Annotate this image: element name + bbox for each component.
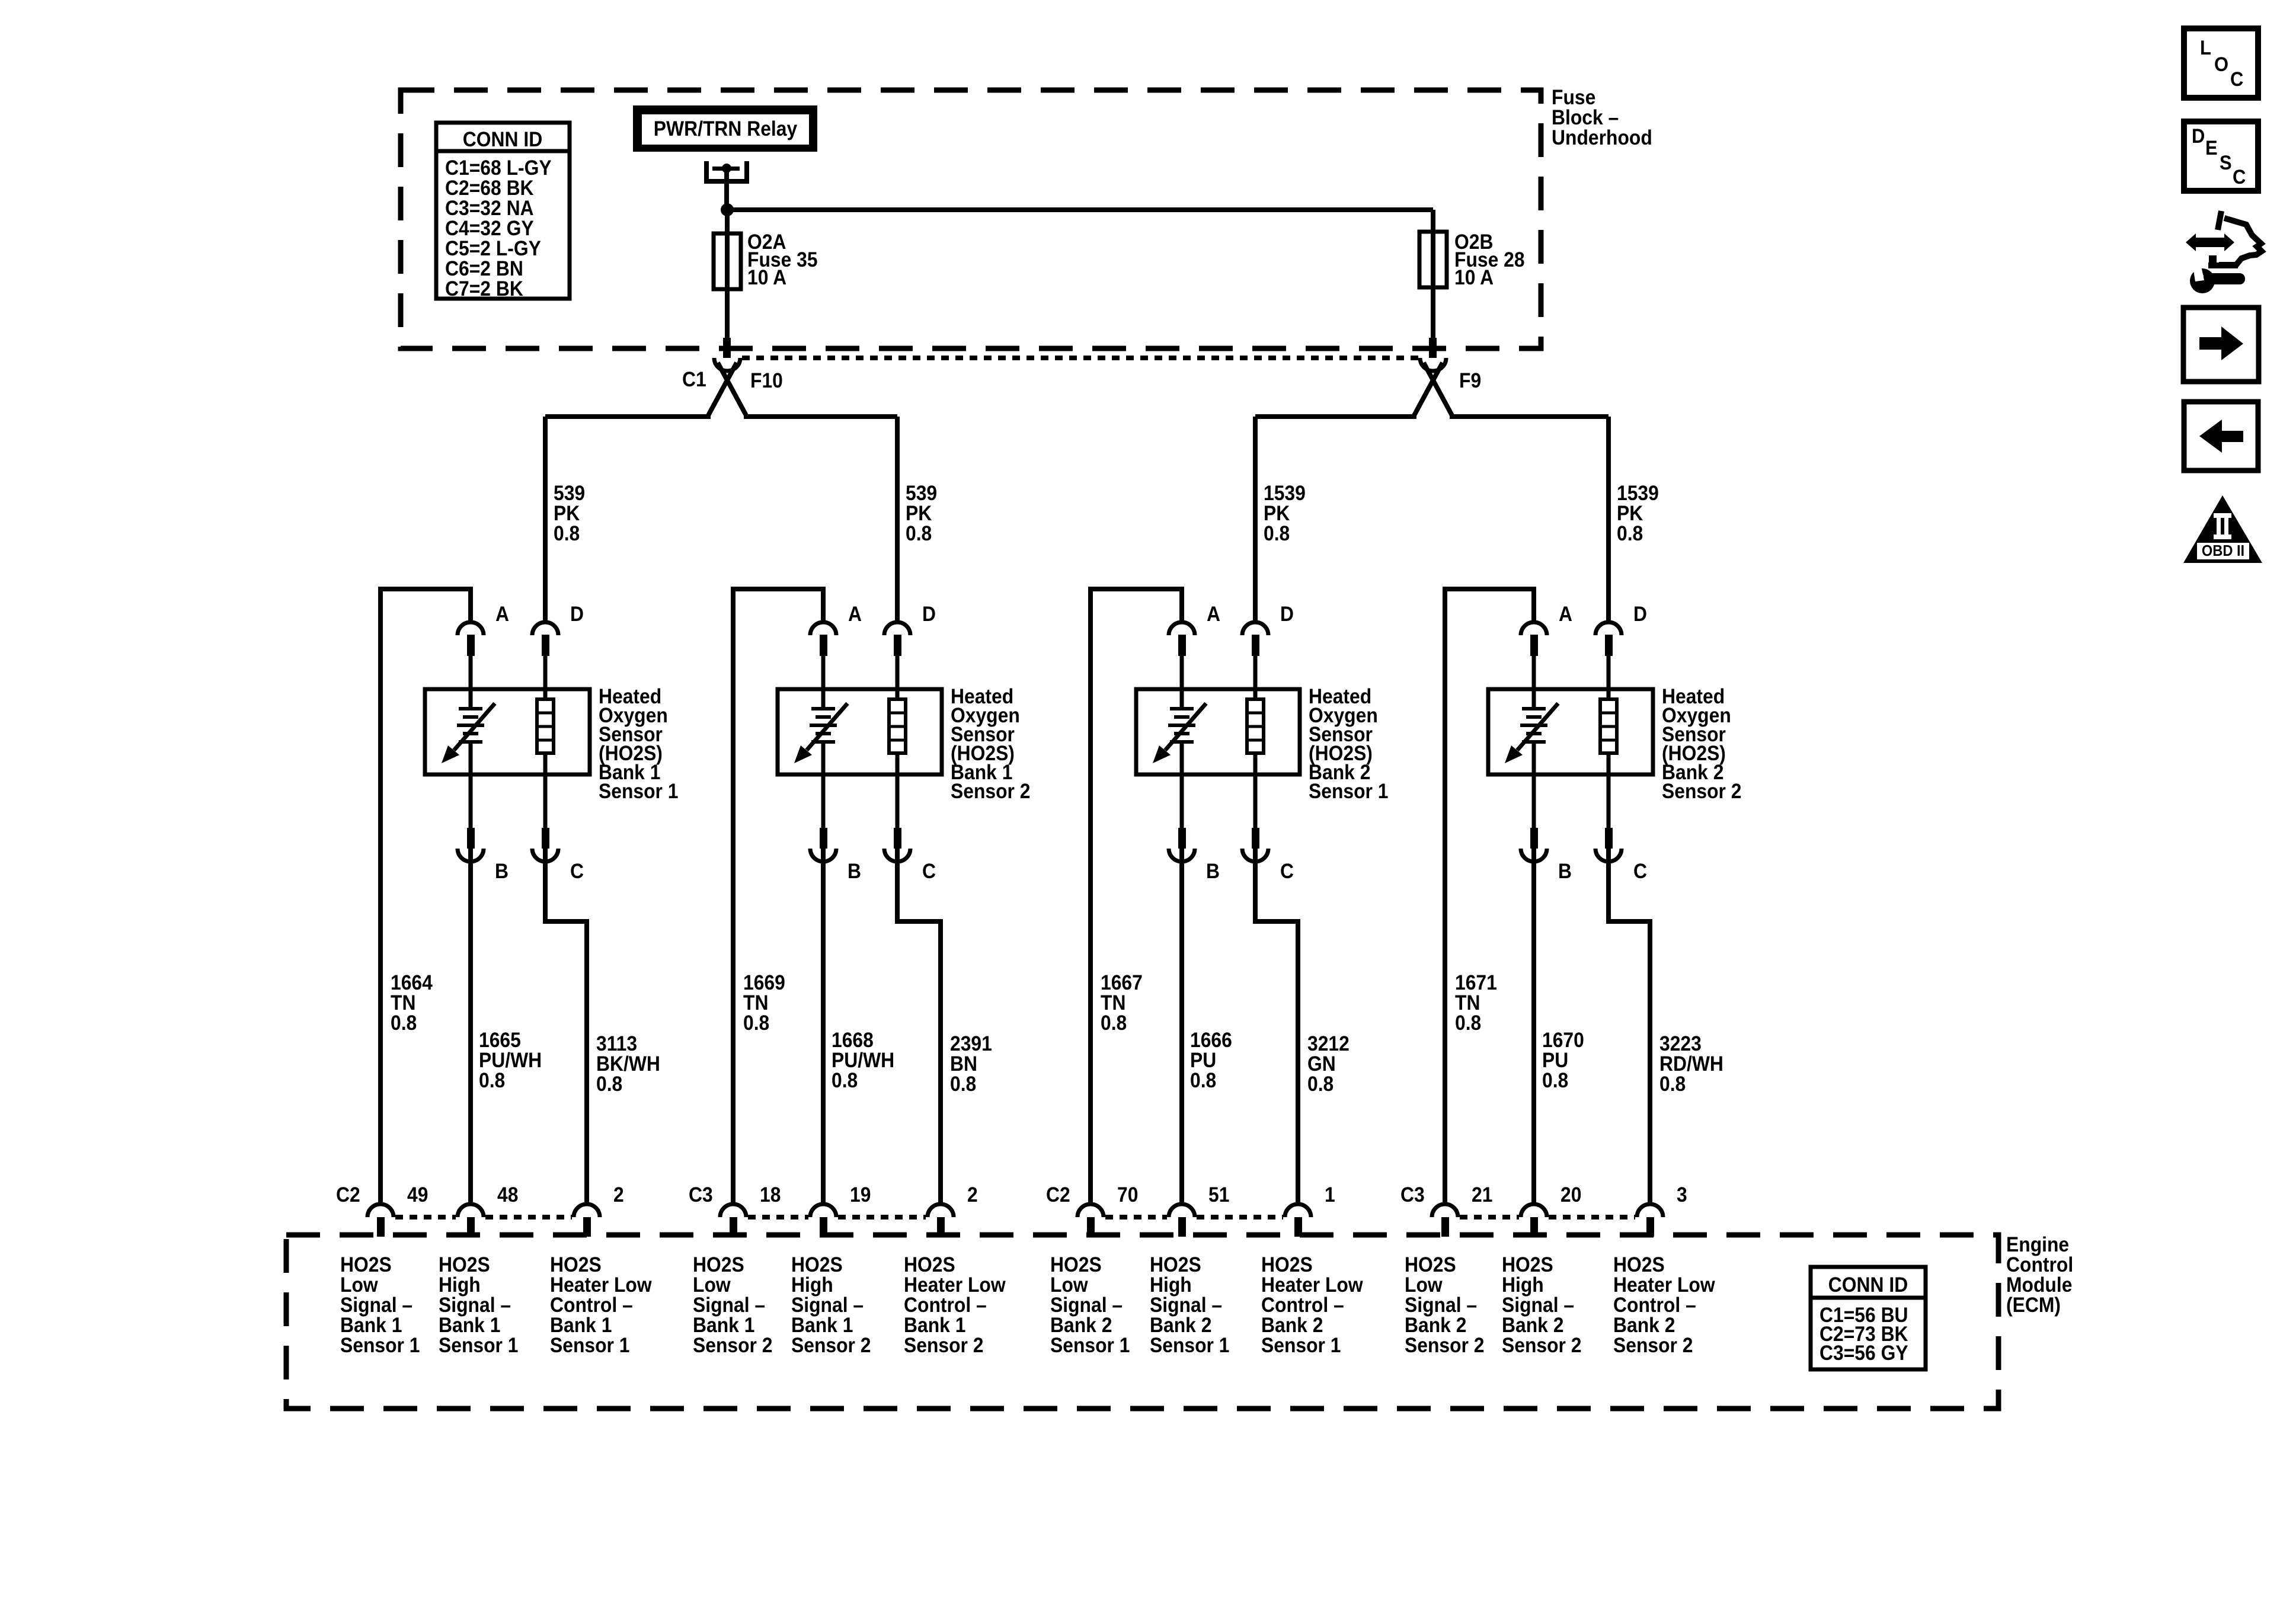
terminal A connector (Bank 1 Sensor 1) [458,622,484,689]
ECM pin connector at x=794 (Bank 1 Sensor 1) [458,1204,484,1237]
svg-text:C4=32 GY: C4=32 GY [445,217,534,241]
ECM pin connector at x=2588 (Bank 2 Sensor 2) [1521,1204,1547,1237]
wire label 1671 TN 0.8 [1455,972,1497,1035]
wire 3113 BK/WH 0.8 terminal C to ECM (Bank 1 Sensor 1) [543,849,589,1205]
label D (Bank 2 Sensor 1) [1280,603,1294,626]
svg-text:D: D [1633,603,1647,626]
Heated Oxygen Sensor box (Bank 2 Sensor 1) [1136,689,1300,774]
terminal D connector (Bank 2 Sensor 1) [1242,622,1268,689]
fuse O2A (Fuse 35 10 A) [714,233,741,289]
svg-text:PU: PU [1542,1049,1568,1073]
heater element symbol (Bank 2 Sensor 2) [1600,689,1617,774]
O2 sensing element symbol (Bank 1 Sensor 1) [442,689,495,774]
svg-text:HO2S: HO2S [1613,1254,1665,1277]
svg-text:HO2S: HO2S [1405,1254,1456,1277]
svg-text:PU/WH: PU/WH [832,1049,894,1073]
terminal B connector (Bank 1 Sensor 1) [458,774,484,862]
svg-text:Sensor 1: Sensor 1 [550,1334,630,1358]
svg-text:70: 70 [1117,1184,1138,1207]
ECM label HO2S Heater Low Control Bank 2 Sensor 1 [1261,1254,1364,1358]
fuse block label: Fuse Block - Underhood [1552,87,1652,150]
svg-text:C3: C3 [1400,1184,1425,1207]
icon back arrow box [2184,402,2258,470]
label F10 [750,370,783,393]
svg-text:3212: 3212 [1307,1033,1350,1056]
ECM label HO2S Low Signal Bank 1 Sensor 1 [340,1254,420,1358]
svg-text:0.8: 0.8 [1190,1070,1216,1093]
heater element symbol (Bank 1 Sensor 2) [889,689,906,774]
svg-text:B: B [848,860,861,884]
svg-text:18: 18 [760,1184,781,1207]
svg-text:Sensor 2: Sensor 2 [1662,780,1742,804]
label pin 21 [1472,1184,1492,1207]
svg-text:Sensor 1: Sensor 1 [439,1334,519,1358]
wire label 1669 TN 0.8 [743,972,785,1035]
svg-text:Control –: Control – [1613,1294,1696,1317]
svg-text:A: A [495,603,509,626]
svg-text:1539: 1539 [1264,482,1306,505]
svg-text:HO2S: HO2S [550,1254,602,1277]
CONN ID table (fuse block: C1=68 L-GY ... C7=2 BK) [436,123,570,300]
wire label 3113 BK/WH 0.8 [596,1033,660,1096]
svg-text:Sensor 2: Sensor 2 [904,1334,984,1358]
wire label 1539 PK 0.8 (Bank 2 Sensor 1 heater feed) [1264,482,1306,546]
svg-text:TN: TN [1455,992,1480,1015]
terminal A connector (Bank 2 Sensor 2) [1521,622,1547,689]
svg-text:1539: 1539 [1617,482,1659,505]
wire terminal A loop (Bank 1 Sensor 1) [378,589,473,1205]
svg-text:Bank 1: Bank 1 [340,1314,402,1337]
relay PWR/TRN Relay (label box) [633,105,817,152]
svg-text:Bank 2: Bank 2 [1613,1314,1675,1337]
wire label 1539 PK 0.8 (Bank 2 Sensor 2 heater feed) [1617,482,1659,546]
label pin 48 [497,1184,518,1207]
wire 3223 RD/WH 0.8 terminal C to ECM (Bank 2 Sensor 2) [1606,849,1652,1205]
svg-text:49: 49 [407,1184,428,1207]
svg-text:O: O [2214,53,2228,76]
fuse block - underhood dashed outline box [401,90,1541,348]
svg-text:C7=2 BK: C7=2 BK [445,278,523,301]
icon OBD II triangle [2183,495,2262,563]
wire terminal A loop (Bank 2 Sensor 2) [1443,589,1536,1205]
label A (Bank 1 Sensor 2) [848,603,862,626]
svg-text:F9: F9 [1459,370,1481,393]
svg-text:Sensor 1: Sensor 1 [1050,1334,1130,1358]
O2 sensing element symbol (Bank 2 Sensor 1) [1153,689,1206,774]
fuse O2B value label [1454,231,1525,290]
svg-text:C3: C3 [689,1184,713,1207]
svg-text:Control –: Control – [1261,1294,1344,1317]
svg-text:HO2S: HO2S [1150,1254,1201,1277]
wire F9 right run to HO2S B2S2 heater feed [1450,414,1609,419]
svg-text:BK/WH: BK/WH [596,1053,660,1076]
Heated Oxygen Sensor box (Bank 2 Sensor 2) [1488,689,1653,774]
svg-text:Sensor 1: Sensor 1 [1309,780,1389,804]
svg-text:1668: 1668 [832,1029,874,1052]
wire horizontal feed down to fuse O2B [1431,210,1435,232]
svg-text:Low: Low [693,1274,731,1297]
fuse O2B (Fuse 28 10 A) [1419,232,1447,287]
svg-text:Bank 1: Bank 1 [791,1314,853,1337]
label connector C2 [1046,1184,1070,1207]
svg-text:0.8: 0.8 [1542,1070,1568,1093]
svg-text:1670: 1670 [1542,1029,1584,1052]
svg-text:Control –: Control – [904,1294,987,1317]
svg-text:Engine: Engine [2006,1234,2069,1257]
wire label 2391 BN 0.8 [950,1033,992,1096]
svg-text:D: D [570,603,584,626]
wire label 1668 PU/WH 0.8 [832,1029,894,1093]
svg-text:C: C [922,860,936,884]
svg-text:0.8: 0.8 [1101,1012,1127,1035]
svg-text:C: C [2230,68,2243,91]
label A (Bank 1 Sensor 1) [495,603,509,626]
svg-text:Bank 1: Bank 1 [439,1314,500,1337]
svg-text:Bank 1: Bank 1 [550,1314,612,1337]
svg-text:C1=68 L-GY: C1=68 L-GY [445,157,552,180]
label F9 [1459,370,1481,393]
svg-text:Sensor 1: Sensor 1 [1150,1334,1230,1358]
svg-text:Heater Low: Heater Low [1613,1274,1716,1297]
wire junction to O2B fuse (horizontal feed) [727,207,1433,212]
svg-text:Bank 2: Bank 2 [1502,1314,1563,1337]
svg-text:1: 1 [1325,1184,1335,1207]
terminal C connector (Bank 2 Sensor 1) [1242,774,1268,862]
ECM label HO2S Heater Low Control Bank 2 Sensor 2 [1613,1254,1716,1358]
svg-text:0.8: 0.8 [950,1073,976,1096]
svg-text:Signal –: Signal – [1405,1294,1477,1317]
svg-text:PWR/TRN Relay: PWR/TRN Relay [654,118,798,141]
svg-text:Signal –: Signal – [693,1294,765,1317]
wire heater feed down to terminal D (Bank 1 Sensor 2) [895,417,900,622]
svg-text:1669: 1669 [743,972,785,995]
wire 1670 PU 0.8 terminal B to ECM (Bank 2 Sensor 2) [1531,849,1536,1205]
terminal C connector (Bank 1 Sensor 2) [884,774,910,862]
svg-text:PU: PU [1190,1049,1216,1073]
svg-text:GN: GN [1307,1053,1336,1076]
svg-text:Sensor 2: Sensor 2 [693,1334,773,1358]
icon vehicle outline with arrow [2186,211,2262,268]
svg-text:1671: 1671 [1455,972,1497,995]
wire heater feed down to terminal D (Bank 1 Sensor 1) [543,417,548,622]
svg-text:D: D [1280,603,1294,626]
junction dot [721,203,734,216]
svg-text:0.8: 0.8 [479,1070,505,1093]
svg-text:Signal –: Signal – [340,1294,412,1317]
ECM label HO2S High Signal Bank 2 Sensor 1 [1150,1254,1230,1358]
svg-text:Underhood: Underhood [1552,127,1652,150]
label D (Bank 1 Sensor 1) [570,603,584,626]
svg-text:Block –: Block – [1552,107,1619,130]
svg-text:D: D [922,603,936,626]
svg-text:Sensor 2: Sensor 2 [1613,1334,1693,1358]
svg-text:Low: Low [1050,1274,1089,1297]
ECM label HO2S High Signal Bank 2 Sensor 2 [1502,1254,1582,1358]
svg-text:BN: BN [950,1053,977,1076]
label D (Bank 2 Sensor 2) [1633,603,1647,626]
ECM pin connector at x=1994 (Bank 2 Sensor 1) [1169,1204,1195,1237]
ECM label HO2S High Signal Bank 1 Sensor 2 [791,1254,871,1358]
ECM label Engine Control Module (ECM) [2006,1234,2073,1317]
wire label 539 PK 0.8 (Bank 1 Sensor 1 heater feed) [554,482,585,546]
label C (Bank 1 Sensor 1) [570,860,584,884]
icon wrench [2190,266,2245,293]
wire terminal A loop (Bank 2 Sensor 1) [1088,589,1184,1205]
svg-text:CONN ID: CONN ID [1828,1274,1908,1297]
wire heater feed down to terminal D (Bank 2 Sensor 1) [1253,417,1258,622]
svg-text:Bank 2: Bank 2 [1150,1314,1211,1337]
svg-text:High: High [439,1274,481,1297]
svg-text:1665: 1665 [479,1029,521,1052]
ECM label HO2S Low Signal Bank 2 Sensor 2 [1405,1254,1485,1358]
svg-text:Sensor 1: Sensor 1 [340,1334,420,1358]
svg-text:2: 2 [613,1184,624,1207]
O2 sensing element symbol (Bank 1 Sensor 2) [794,689,848,774]
dotted connector edge line C1 to F9 [742,356,1419,360]
label B (Bank 1 Sensor 2) [848,860,861,884]
ECM pin connector at x=642 (Bank 1 Sensor 1) [367,1204,394,1237]
svg-text:2: 2 [967,1184,978,1207]
svg-text:0.8: 0.8 [1264,523,1290,546]
sensor label Heated Oxygen Sensor (HO2S) Bank 1 Sensor 1 [599,686,679,804]
svg-text:Signal –: Signal – [791,1294,864,1317]
wire fuse O2B down to connector F9 [1431,287,1435,339]
wire label 1666 PU 0.8 [1190,1029,1232,1093]
icon forward arrow box [2183,308,2259,382]
wire 1668 PU/WH 0.8 terminal B to ECM (Bank 1 Sensor 2) [821,849,826,1205]
svg-text:0.8: 0.8 [743,1012,769,1035]
svg-text:HO2S: HO2S [439,1254,490,1277]
svg-text:E: E [2205,137,2218,159]
svg-text:Bank 2: Bank 2 [1050,1314,1112,1337]
ECM pin connector at x=2438 (Bank 2 Sensor 2) [1432,1204,1458,1237]
svg-text:C3=32 NA: C3=32 NA [445,197,534,220]
svg-text:0.8: 0.8 [1307,1073,1334,1096]
svg-text:Signal –: Signal – [439,1294,511,1317]
svg-text:C3=56 GY: C3=56 GY [1819,1342,1908,1365]
icon DESC box [2184,121,2258,191]
wire 3212 GN 0.8 terminal C to ECM (Bank 2 Sensor 1) [1253,849,1300,1205]
svg-text:OBD II: OBD II [2202,543,2244,559]
label pin 2 [613,1184,624,1207]
fuse O2A value label [747,231,818,290]
Heated Oxygen Sensor box (Bank 1 Sensor 2) [778,689,942,774]
svg-text:B: B [1206,860,1220,884]
wire C1/F10 left run to HO2S B1S1 heater feed [545,414,711,419]
terminal B connector (Bank 2 Sensor 2) [1521,774,1547,862]
wire 2391 BN 0.8 terminal C to ECM (Bank 1 Sensor 2) [895,849,943,1205]
wire label 1664 TN 0.8 [391,972,433,1035]
wire label 3223 RD/WH 0.8 [1659,1033,1723,1096]
wire label 1667 TN 0.8 [1101,972,1143,1035]
label pin 51 [1208,1184,1229,1207]
label pin 18 [760,1184,781,1207]
label B (Bank 2 Sensor 2) [1558,860,1572,884]
svg-text:F10: F10 [750,370,783,393]
svg-text:Heater Low: Heater Low [904,1274,1006,1297]
wire C1/F10 right run to HO2S B1S2 heater feed [744,414,897,419]
svg-text:Sensor 2: Sensor 2 [1405,1334,1485,1358]
terminal B connector (Bank 2 Sensor 1) [1169,774,1195,862]
O2 sensing element symbol (Bank 2 Sensor 2) [1505,689,1558,774]
Engine Control Module dashed outline box [286,1235,1998,1409]
connector F9 (pin, cup, crossing legs) [1414,338,1452,415]
svg-text:(ECM): (ECM) [2006,1294,2061,1317]
terminal B connector (Bank 1 Sensor 2) [810,774,836,862]
heater element symbol (Bank 1 Sensor 1) [537,689,554,774]
terminal D connector (Bank 2 Sensor 2) [1595,622,1622,689]
svg-text:C1: C1 [682,369,706,392]
svg-text:0.8: 0.8 [1455,1012,1481,1035]
svg-text:Low: Low [1405,1274,1443,1297]
svg-text:C: C [1633,860,1647,884]
svg-text:L: L [2200,37,2211,59]
svg-text:HO2S: HO2S [791,1254,843,1277]
svg-text:C5=2 L-GY: C5=2 L-GY [445,238,541,261]
svg-text:HO2S: HO2S [340,1254,392,1277]
svg-text:10 A: 10 A [1454,267,1494,290]
svg-text:Bank 1: Bank 1 [693,1314,754,1337]
svg-text:CONN ID: CONN ID [463,129,542,152]
ECM label HO2S High Signal Bank 1 Sensor 1 [439,1254,519,1358]
svg-text:Sensor 2: Sensor 2 [1502,1334,1582,1358]
sensor label Heated Oxygen Sensor (HO2S) Bank 2 Sensor 1 [1309,686,1389,804]
svg-text:Bank 2: Bank 2 [1405,1314,1466,1337]
svg-text:0.8: 0.8 [554,523,580,546]
svg-text:PK: PK [1617,502,1643,526]
label pin 70 [1117,1184,1138,1207]
svg-text:HO2S: HO2S [1502,1254,1553,1277]
svg-text:HO2S: HO2S [693,1254,744,1277]
svg-text:A: A [848,603,862,626]
svg-text:High: High [791,1274,833,1297]
svg-text:Signal –: Signal – [1502,1294,1574,1317]
terminal C connector (Bank 1 Sensor 1) [532,774,558,862]
wire terminal A loop (Bank 1 Sensor 2) [731,589,826,1205]
svg-text:Fuse: Fuse [1552,87,1595,110]
svg-text:Sensor 1: Sensor 1 [599,780,679,804]
svg-text:Sensor 2: Sensor 2 [951,780,1031,804]
svg-text:2391: 2391 [950,1033,992,1056]
label connector C3 [1400,1184,1425,1207]
wire fuse O2A down to connector C1 terminal F10 [725,289,730,339]
svg-text:0.8: 0.8 [832,1070,858,1093]
label C (Bank 2 Sensor 2) [1633,860,1647,884]
label A (Bank 2 Sensor 1) [1207,603,1220,626]
label C1 [682,369,706,392]
svg-text:A: A [1559,603,1572,626]
terminal D connector (Bank 1 Sensor 1) [532,622,558,689]
svg-text:TN: TN [1101,992,1125,1015]
label B (Bank 1 Sensor 1) [495,860,509,884]
svg-text:C6=2 BN: C6=2 BN [445,258,523,281]
svg-text:PK: PK [1264,502,1290,526]
svg-text:C: C [2233,166,2246,188]
svg-text:Control –: Control – [550,1294,633,1317]
terminal C connector (Bank 2 Sensor 2) [1595,774,1622,862]
terminal D connector (Bank 1 Sensor 2) [884,622,910,689]
svg-text:19: 19 [850,1184,871,1207]
wire relay output down to junction [724,168,729,210]
svg-text:Sensor 1: Sensor 1 [1261,1334,1341,1358]
svg-text:PK: PK [554,502,580,526]
svg-text:51: 51 [1208,1184,1229,1207]
svg-text:HO2S: HO2S [1050,1254,1102,1277]
ECM label HO2S Low Signal Bank 1 Sensor 2 [693,1254,773,1358]
svg-text:Module: Module [2006,1274,2072,1297]
svg-text:B: B [1558,860,1572,884]
svg-text:10 A: 10 A [747,267,786,290]
svg-text:Control: Control [2006,1254,2073,1277]
svg-text:C2: C2 [1046,1184,1070,1207]
label A (Bank 2 Sensor 2) [1559,603,1572,626]
svg-text:48: 48 [497,1184,518,1207]
label pin 2 [967,1184,978,1207]
svg-text:S: S [2220,152,2232,174]
svg-text:3113: 3113 [596,1033,637,1056]
label C (Bank 2 Sensor 1) [1280,860,1294,884]
svg-text:D: D [2192,125,2205,148]
svg-text:C2=68 BK: C2=68 BK [445,177,534,200]
svg-text:PK: PK [906,502,932,526]
svg-text:Sensor 2: Sensor 2 [791,1334,871,1358]
wire F9 left run to HO2S B2S1 heater feed [1255,414,1416,419]
wire label 3212 GN 0.8 [1307,1033,1350,1096]
svg-text:0.8: 0.8 [1617,523,1643,546]
svg-text:RD/WH: RD/WH [1659,1053,1723,1076]
svg-text:PU/WH: PU/WH [479,1049,542,1073]
icon LOC box [2184,28,2258,98]
svg-text:A: A [1207,603,1220,626]
ECM label HO2S Heater Low Control Bank 1 Sensor 1 [550,1254,653,1358]
ECM connector dashes (C3 group, Bank 1 Sensor 2) [748,1215,926,1219]
ECM pin connector at x=2784 (Bank 2 Sensor 2) [1637,1204,1663,1237]
label pin 1 [1325,1184,1335,1207]
label C (Bank 1 Sensor 2) [922,860,936,884]
wire junction down to fuse O2A [725,210,730,233]
svg-text:C: C [570,860,584,884]
svg-text:1664: 1664 [391,972,433,995]
label B (Bank 2 Sensor 1) [1206,860,1220,884]
connector C1 terminal F10 (pin, cup, crossing legs) [708,338,746,415]
svg-text:1667: 1667 [1101,972,1143,995]
svg-text:3: 3 [1677,1184,1687,1207]
ECM pin connector at x=1237 (Bank 1 Sensor 2) [720,1204,746,1237]
svg-text:HO2S: HO2S [904,1254,955,1277]
label pin 3 [1677,1184,1687,1207]
ECM connector dashes (C2 group, Bank 1 Sensor 1) [395,1215,572,1219]
svg-text:0.8: 0.8 [1659,1073,1686,1096]
ECM pin connector at x=1840 (Bank 2 Sensor 1) [1077,1204,1104,1237]
label pin 49 [407,1184,428,1207]
svg-text:High: High [1150,1274,1192,1297]
svg-text:TN: TN [391,992,415,1015]
svg-text:Signal –: Signal – [1150,1294,1222,1317]
svg-text:C: C [1280,860,1294,884]
svg-text:0.8: 0.8 [391,1012,417,1035]
svg-text:1666: 1666 [1190,1029,1232,1052]
svg-text:Signal –: Signal – [1050,1294,1123,1317]
svg-text:Bank 1: Bank 1 [904,1314,965,1337]
ECM connector dashes (C3 group, Bank 2 Sensor 2) [1460,1215,1635,1219]
ECM label HO2S Low Signal Bank 2 Sensor 1 [1050,1254,1130,1358]
svg-text:HO2S: HO2S [1261,1254,1313,1277]
ECM pin connector at x=1389 (Bank 1 Sensor 2) [810,1204,836,1237]
svg-text:High: High [1502,1274,1544,1297]
svg-text:Bank 2: Bank 2 [1261,1314,1323,1337]
ECM pin connector at x=2190 (Bank 2 Sensor 1) [1285,1204,1311,1237]
wire heater feed down to terminal D (Bank 2 Sensor 2) [1606,417,1611,622]
